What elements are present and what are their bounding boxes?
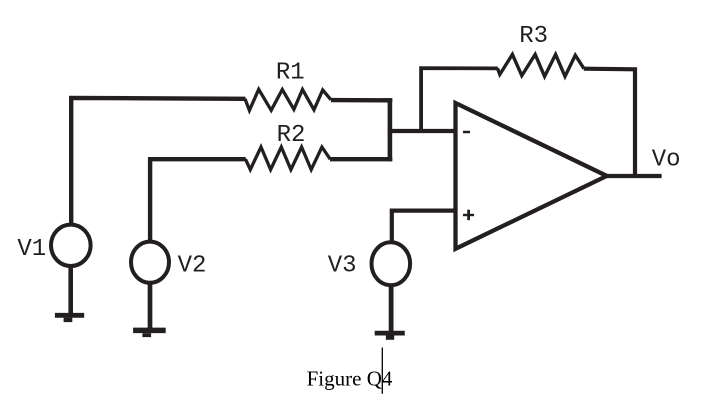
svg-text:V3: V3: [328, 253, 357, 280]
ground (V1): [55, 315, 84, 322]
wire: R1 right lead to junction node: [331, 98, 392, 103]
wire: V2 bottom lead: [148, 282, 153, 331]
resistor R1: [245, 89, 331, 110]
wire: feedback left vertical up to R3 left terminal: [421, 68, 498, 131]
resistor R3: [498, 54, 584, 76]
wire: V1 bottom lead: [68, 265, 73, 316]
text cursor caret in caption: [381, 348, 383, 394]
svg-text:R3: R3: [519, 23, 548, 50]
wire: junction to op-amp inverting input: [388, 129, 456, 133]
wire: R3 right lead and feedback vertical down to output: [584, 69, 635, 176]
wire: op-amp output: [605, 174, 662, 178]
ground (V2): [133, 330, 166, 337]
svg-text:V1: V1: [17, 236, 46, 263]
wire: V2 top lead up and across to R2 left terminal: [150, 159, 246, 242]
svg-text:R2: R2: [277, 122, 306, 149]
wire: junction vertical joining R1 and R2: [388, 98, 393, 161]
svg-text:V2: V2: [178, 252, 207, 279]
op-amp non-inverting pin marker (+): [463, 210, 474, 221]
op-amp U1: [456, 103, 607, 249]
wire: V1 top lead up and across to R1 left terminal: [71, 98, 245, 226]
wire: R2 right lead to junction node: [330, 157, 392, 161]
source V3: [372, 242, 411, 285]
source V1: [51, 225, 91, 266]
wire: V3 bottom lead: [389, 284, 394, 333]
svg-text:R1: R1: [276, 59, 305, 86]
resistor R2: [246, 147, 331, 170]
source V2: [131, 242, 169, 283]
svg-text:Figure Q4: Figure Q4: [307, 367, 393, 391]
op-amp inverting pin marker (-): [463, 131, 470, 134]
ground (V3): [375, 333, 405, 340]
svg-text:Vo: Vo: [652, 147, 681, 174]
wire: op-amp non-inverting input to V3: [392, 211, 456, 242]
